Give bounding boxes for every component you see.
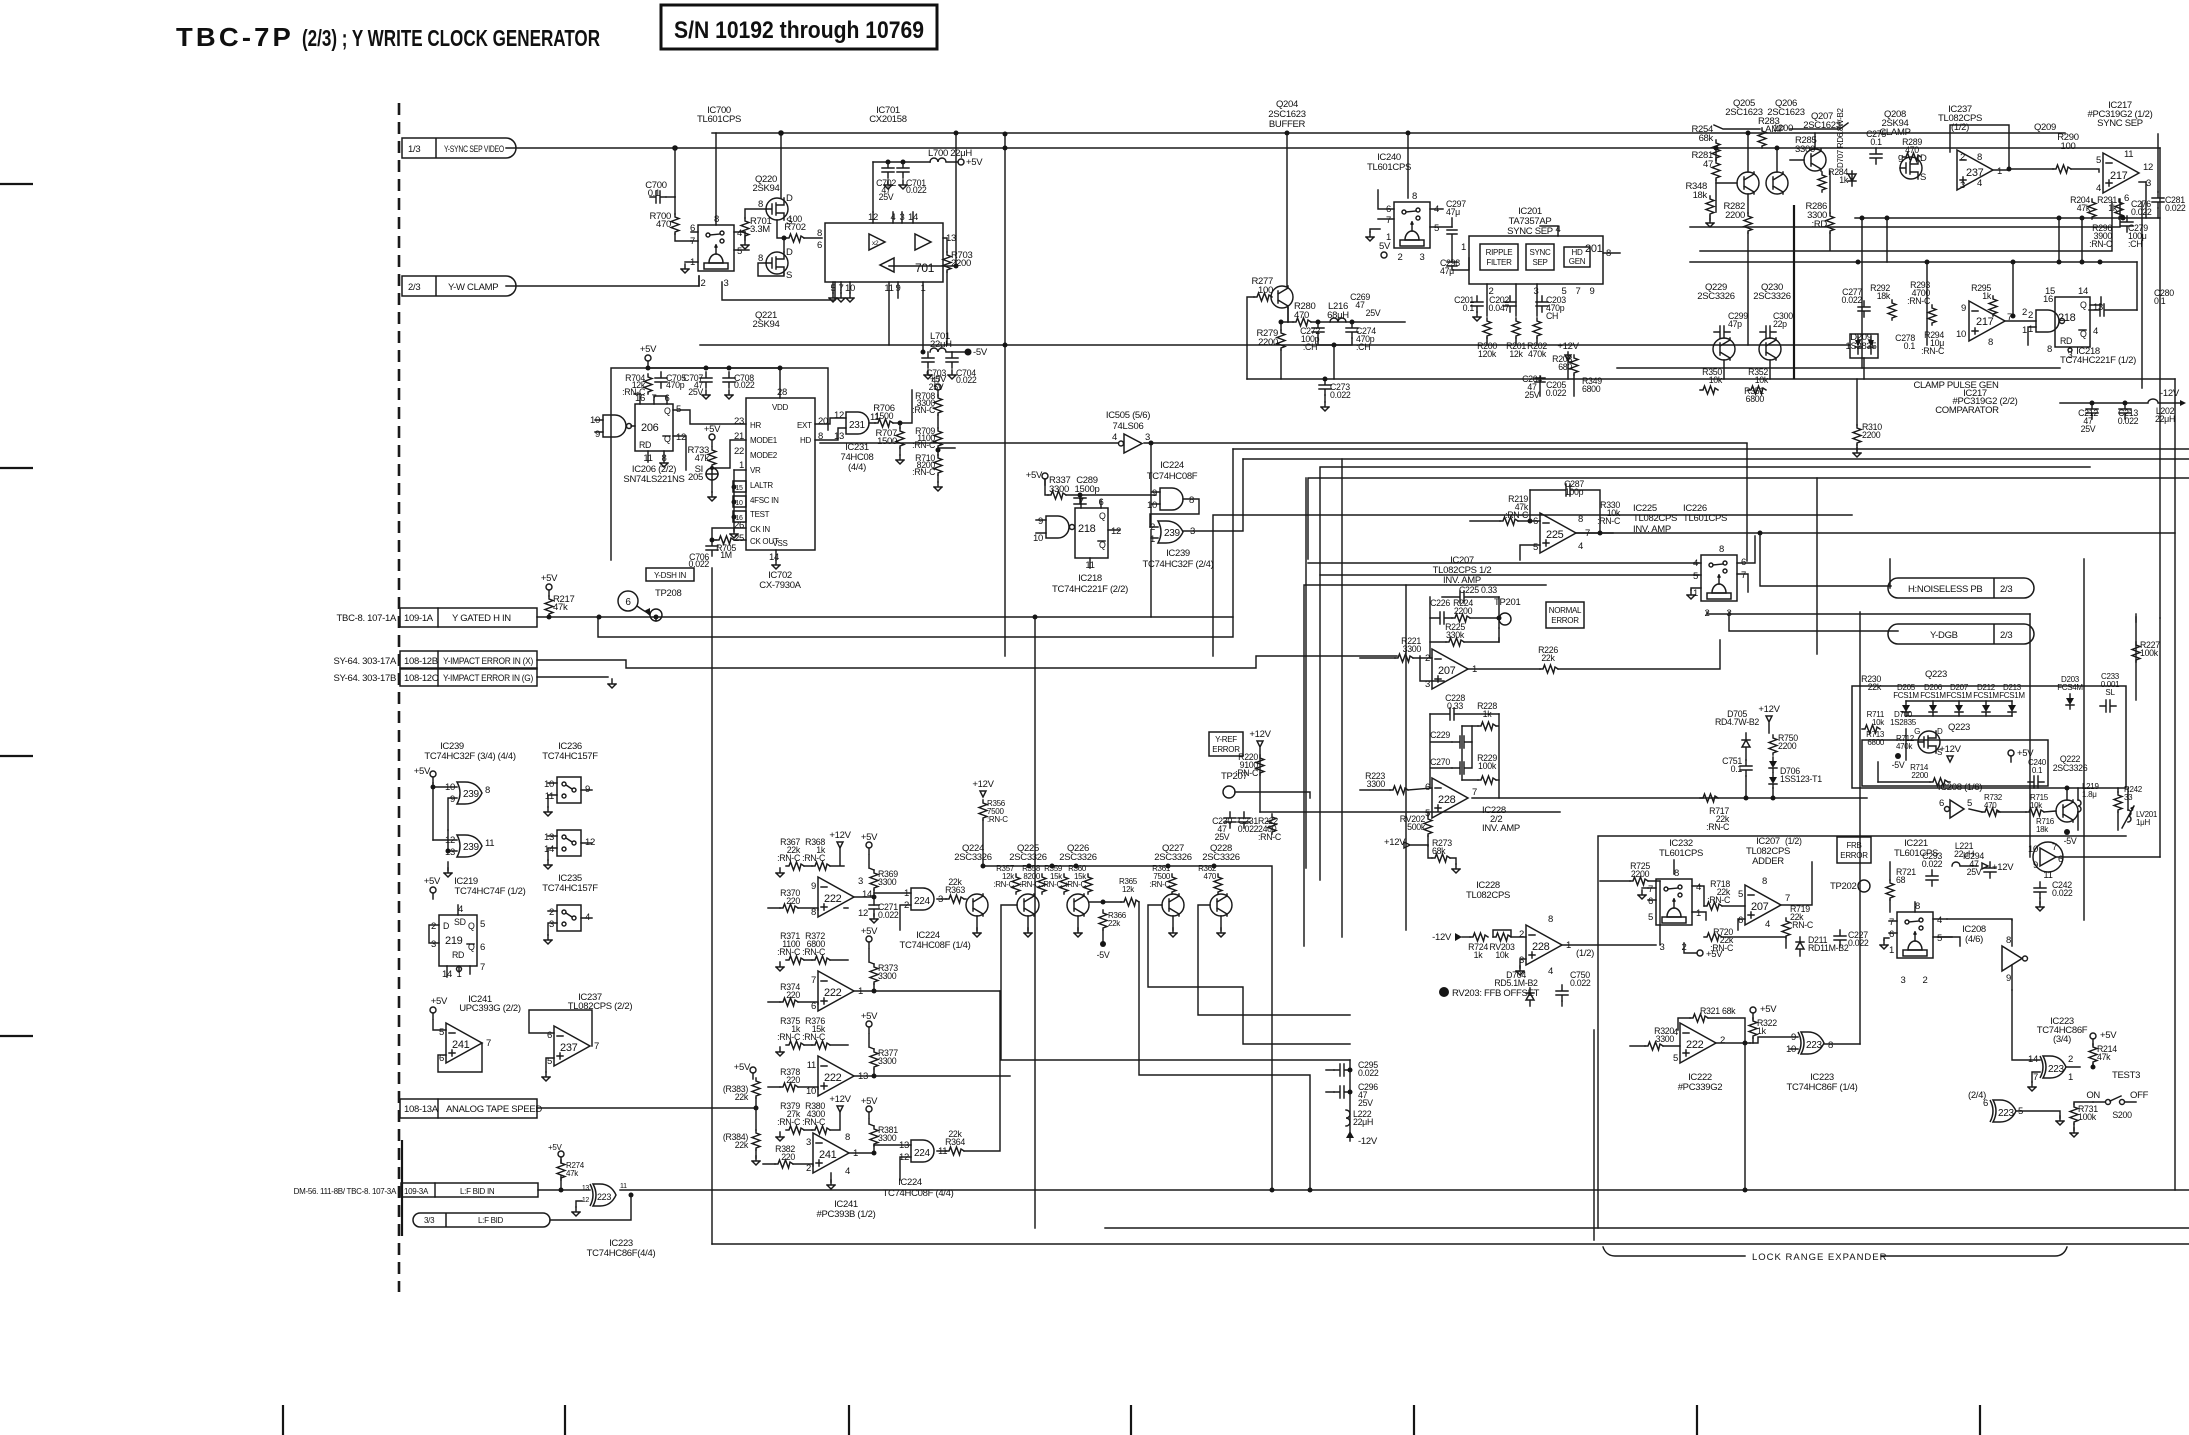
svg-text:7: 7 bbox=[1741, 570, 1746, 581]
svg-text:BUFFER: BUFFER bbox=[1269, 119, 1306, 130]
svg-text:25V: 25V bbox=[1358, 1098, 1373, 1108]
resistor R702 bbox=[786, 234, 804, 242]
svg-text:22μH: 22μH bbox=[2155, 414, 2175, 424]
svg-text:Q223: Q223 bbox=[1948, 722, 1970, 733]
svg-text:7: 7 bbox=[480, 962, 485, 973]
svg-text::RN-C: :RN-C bbox=[1790, 920, 1814, 930]
svg-text:4: 4 bbox=[458, 904, 463, 915]
svg-text:1: 1 bbox=[1150, 534, 1155, 545]
capacitor C703 / capacitor C704 bbox=[922, 352, 934, 368]
svg-text:224: 224 bbox=[914, 896, 931, 907]
svg-text:-5V: -5V bbox=[2064, 836, 2077, 846]
svg-text:241: 241 bbox=[452, 1039, 470, 1051]
svg-text:ERROR: ERROR bbox=[1551, 616, 1579, 625]
svg-text:228: 228 bbox=[1532, 941, 1550, 953]
svg-text:8: 8 bbox=[817, 228, 822, 239]
box 108-13A ANALOG TAPE SPEED bbox=[400, 1099, 542, 1118]
svg-text:TC74HC221F (2/2): TC74HC221F (2/2) bbox=[1052, 584, 1128, 595]
svg-text:2: 2 bbox=[1720, 1035, 1725, 1046]
capacitor C203 bbox=[1536, 296, 1548, 312]
svg-text:1k: 1k bbox=[1982, 291, 1992, 301]
FRB ERROR box bbox=[1837, 837, 1871, 863]
svg-text:109-3A: 109-3A bbox=[404, 1187, 429, 1196]
svg-text:5: 5 bbox=[1967, 798, 1972, 809]
box 109-3A L:F BID IN bbox=[294, 1183, 538, 1197]
svg-text:3: 3 bbox=[2146, 178, 2151, 189]
right edge verticals bbox=[1890, 379, 2175, 1190]
svg-text:0.1: 0.1 bbox=[648, 188, 660, 199]
svg-text:2SC3326: 2SC3326 bbox=[1202, 852, 1240, 863]
svg-text:206: 206 bbox=[641, 422, 659, 434]
svg-text:11: 11 bbox=[2124, 149, 2133, 160]
svg-text:8: 8 bbox=[485, 785, 490, 796]
svg-text:219: 219 bbox=[445, 935, 463, 947]
svg-text:3: 3 bbox=[1534, 286, 1539, 297]
AND 231 bbox=[846, 412, 869, 434]
NAND into 218 bbox=[1046, 516, 1069, 538]
svg-text:CX-7930A: CX-7930A bbox=[759, 580, 801, 591]
svg-text:HD: HD bbox=[800, 436, 811, 445]
wire staircase buses bbox=[1233, 448, 2189, 450]
svg-text:0.022: 0.022 bbox=[2118, 416, 2139, 426]
svg-text::RN-C: :RN-C bbox=[1921, 346, 1945, 356]
svg-text:Y-REF: Y-REF bbox=[1215, 735, 1237, 744]
svg-text:224: 224 bbox=[914, 1148, 931, 1159]
svg-text:1/3: 1/3 bbox=[408, 144, 420, 155]
wire nested corners bbox=[1320, 467, 2090, 880]
svg-text:TBC-7P: TBC-7P bbox=[176, 22, 294, 52]
R282 2200 bbox=[1744, 213, 1752, 233]
resistor R200 bbox=[1483, 318, 1491, 338]
svg-text:222: 222 bbox=[824, 893, 842, 905]
svg-text:OFF: OFF bbox=[2130, 1090, 2149, 1101]
wire pill links bbox=[1707, 612, 2030, 631]
svg-text:+5V: +5V bbox=[861, 926, 878, 937]
svg-text:7: 7 bbox=[1889, 917, 1894, 928]
svg-text:IC224: IC224 bbox=[898, 1177, 922, 1188]
svg-text:2SC3326: 2SC3326 bbox=[1009, 852, 1047, 863]
svg-text:25V: 25V bbox=[1215, 832, 1230, 842]
svg-text:1500: 1500 bbox=[877, 436, 897, 447]
svg-text:FCS1M: FCS1M bbox=[1893, 691, 1919, 700]
svg-text:2SK94: 2SK94 bbox=[752, 319, 779, 330]
svg-text:0.1: 0.1 bbox=[2154, 296, 2166, 306]
svg-text:470p: 470p bbox=[666, 380, 685, 390]
svg-text:(4/6): (4/6) bbox=[1965, 934, 1983, 945]
svg-text:0.022: 0.022 bbox=[1238, 824, 1259, 834]
svg-text:22k: 22k bbox=[948, 1129, 962, 1139]
svg-text:8: 8 bbox=[845, 1132, 850, 1143]
svg-text:+5V: +5V bbox=[2100, 1030, 2117, 1041]
218 block right bbox=[2055, 297, 2090, 347]
svg-text:2: 2 bbox=[1960, 152, 1965, 163]
svg-text:68: 68 bbox=[1896, 875, 1906, 885]
svg-text:47k: 47k bbox=[553, 602, 568, 613]
pill 2/3 Y-W CLAMP bbox=[402, 276, 516, 296]
wire y-sync sep video bus bbox=[506, 147, 2160, 149]
svg-text:+5V: +5V bbox=[734, 1062, 751, 1073]
svg-text:3300: 3300 bbox=[1656, 1034, 1675, 1044]
svg-text:4: 4 bbox=[2093, 326, 2098, 337]
svg-text:4: 4 bbox=[2096, 183, 2101, 194]
svg-text:Q: Q bbox=[468, 921, 475, 931]
svg-text:H:NOISELESS PB: H:NOISELESS PB bbox=[1908, 584, 1982, 595]
svg-text:4: 4 bbox=[1977, 178, 1982, 189]
R705 C706 bbox=[712, 528, 746, 540]
svg-text:0.022: 0.022 bbox=[1570, 978, 1591, 988]
svg-text:3: 3 bbox=[806, 1137, 811, 1148]
connector wires right bbox=[1878, 782, 2128, 1060]
wire midfield verticals bbox=[1034, 617, 1036, 1228]
svg-text:3: 3 bbox=[1660, 942, 1665, 953]
svg-text:+5V: +5V bbox=[861, 1096, 878, 1107]
svg-text:6: 6 bbox=[817, 240, 822, 251]
R283 1200 bbox=[1758, 128, 1766, 148]
svg-text:0.022: 0.022 bbox=[1848, 938, 1869, 948]
svg-text:ERROR: ERROR bbox=[1840, 851, 1868, 860]
svg-text:8: 8 bbox=[1548, 914, 1553, 925]
svg-text:0.1: 0.1 bbox=[1870, 137, 1882, 147]
svg-text:SYNC SEP: SYNC SEP bbox=[2097, 118, 2143, 129]
svg-text:ON: ON bbox=[2086, 1090, 2100, 1101]
svg-text:9: 9 bbox=[1038, 516, 1043, 527]
svg-text:+5V: +5V bbox=[704, 424, 721, 435]
IC218 block (2/2) bbox=[1075, 508, 1108, 558]
svg-text:10: 10 bbox=[1147, 500, 1157, 511]
svg-text:330k: 330k bbox=[1446, 630, 1465, 640]
svg-text:-5V: -5V bbox=[973, 347, 988, 358]
switch IC700 bbox=[698, 225, 734, 271]
wire top bus bbox=[712, 132, 2065, 134]
svg-text:MODE2: MODE2 bbox=[750, 451, 778, 460]
svg-text:12: 12 bbox=[834, 410, 844, 421]
svg-text::RN-C: :RN-C bbox=[987, 815, 1008, 824]
svg-text:0.022: 0.022 bbox=[1330, 390, 1351, 400]
svg-text:12: 12 bbox=[1111, 526, 1121, 537]
svg-text:220: 220 bbox=[781, 1152, 795, 1162]
D211 C227 bbox=[1796, 937, 1804, 956]
svg-text:220: 220 bbox=[786, 990, 800, 1000]
svg-text:11: 11 bbox=[485, 838, 494, 849]
svg-text:1500: 1500 bbox=[875, 411, 894, 421]
svg-text:217: 217 bbox=[2110, 170, 2128, 182]
svg-text:FCS1M: FCS1M bbox=[1920, 691, 1946, 700]
svg-text:207: 207 bbox=[1751, 901, 1769, 913]
svg-text:5V: 5V bbox=[1379, 241, 1391, 252]
svg-text:1: 1 bbox=[1696, 908, 1701, 919]
IC702 big box bbox=[746, 398, 815, 550]
svg-text:3: 3 bbox=[858, 876, 863, 887]
svg-text:IC224: IC224 bbox=[1160, 460, 1184, 471]
pin boxes 15 10 16 bbox=[733, 481, 746, 492]
svg-text:4: 4 bbox=[1112, 432, 1117, 443]
svg-text:TC74HC32F (2/4): TC74HC32F (2/4) bbox=[1143, 559, 1214, 570]
svg-text:100p: 100p bbox=[1565, 487, 1584, 497]
svg-text:SEP: SEP bbox=[1532, 258, 1547, 267]
svg-text:6: 6 bbox=[480, 942, 485, 953]
svg-text:22k: 22k bbox=[1541, 653, 1555, 663]
svg-text:-5V: -5V bbox=[1097, 950, 1110, 960]
svg-text:Q209: Q209 bbox=[2034, 122, 2056, 133]
svg-text:13: 13 bbox=[544, 832, 554, 843]
svg-text:HD: HD bbox=[1572, 248, 1583, 257]
svg-text:241: 241 bbox=[819, 1149, 837, 1161]
svg-text:+5V: +5V bbox=[640, 344, 657, 355]
svg-text:3300: 3300 bbox=[878, 877, 897, 887]
svg-text:Y GATED H IN: Y GATED H IN bbox=[452, 613, 511, 624]
C295 C296 L222 bbox=[1349, 1060, 1351, 1141]
svg-text:223: 223 bbox=[2048, 1064, 2065, 1075]
svg-text:(1/2): (1/2) bbox=[1951, 122, 1969, 133]
+5V R337 C289 bbox=[1042, 473, 1048, 485]
svg-text:22: 22 bbox=[734, 446, 744, 457]
svg-text:S: S bbox=[786, 270, 792, 281]
svg-text:G: G bbox=[1914, 727, 1920, 736]
shield box bbox=[611, 368, 828, 560]
svg-text:NORMAL: NORMAL bbox=[1549, 606, 1582, 615]
XOR 223 mid bbox=[1798, 1032, 1824, 1054]
svg-text:3300: 3300 bbox=[878, 1133, 897, 1143]
wire enclosure left edge bbox=[711, 568, 713, 1244]
svg-text:0.1: 0.1 bbox=[2032, 766, 2043, 775]
svg-text:5: 5 bbox=[1434, 223, 1439, 234]
svg-text:6800: 6800 bbox=[1582, 384, 1601, 394]
svg-text:7: 7 bbox=[1576, 286, 1581, 297]
svg-text:+12V: +12V bbox=[1939, 744, 1961, 755]
svg-text::CH: :CH bbox=[1303, 342, 1317, 352]
svg-text:4FSC IN: 4FSC IN bbox=[750, 496, 779, 505]
switch IC232 bbox=[1656, 879, 1692, 925]
svg-text:12: 12 bbox=[2143, 162, 2153, 173]
svg-text:FCS4M: FCS4M bbox=[2057, 683, 2083, 692]
svg-text:9: 9 bbox=[2006, 973, 2011, 984]
svg-text:68k: 68k bbox=[1432, 846, 1446, 856]
svg-text:TL601CPS: TL601CPS bbox=[697, 114, 741, 125]
svg-text:0.022: 0.022 bbox=[1922, 859, 1943, 869]
OR 239 b bbox=[457, 835, 482, 857]
svg-text:4: 4 bbox=[1673, 1027, 1678, 1038]
svg-text:218: 218 bbox=[1078, 523, 1096, 535]
R286 3300 RD bbox=[1826, 213, 1834, 233]
svg-text:10: 10 bbox=[1956, 329, 1966, 340]
svg-text:10: 10 bbox=[1033, 533, 1043, 544]
svg-text:15: 15 bbox=[735, 485, 743, 492]
FET Q208 bbox=[1900, 157, 1922, 179]
svg-text:-5V: -5V bbox=[1892, 760, 1905, 770]
svg-text:0.022: 0.022 bbox=[1546, 388, 1567, 398]
svg-text:RIPPLE: RIPPLE bbox=[1486, 248, 1513, 257]
svg-text:7: 7 bbox=[1472, 787, 1477, 798]
svg-text:100k: 100k bbox=[2078, 1112, 2097, 1122]
svg-text:4: 4 bbox=[1765, 919, 1770, 930]
svg-text:LOCK RANGE EXPANDER: LOCK RANGE EXPANDER bbox=[1752, 1252, 1888, 1263]
svg-text:+12V: +12V bbox=[972, 779, 994, 790]
svg-text:100: 100 bbox=[788, 214, 802, 224]
svg-text:2SC3326: 2SC3326 bbox=[1697, 291, 1735, 302]
svg-text:22k: 22k bbox=[1108, 919, 1121, 928]
svg-text:7: 7 bbox=[811, 975, 816, 986]
svg-text:12k: 12k bbox=[1122, 885, 1135, 894]
svg-text:100k: 100k bbox=[2140, 648, 2159, 658]
svg-text:223: 223 bbox=[597, 1192, 611, 1202]
resistor R704 / capacitor C705 bbox=[644, 374, 652, 394]
svg-text:8: 8 bbox=[1578, 514, 1583, 525]
svg-text:3300: 3300 bbox=[1795, 144, 1815, 155]
box 108-12B bbox=[333, 651, 537, 669]
svg-text:0.1: 0.1 bbox=[1463, 303, 1475, 313]
svg-text:TC74HC86F(4/4): TC74HC86F(4/4) bbox=[587, 1248, 656, 1259]
svg-text:Y-IMPACT ERROR IN (G): Y-IMPACT ERROR IN (G) bbox=[443, 673, 533, 684]
svg-text:8: 8 bbox=[1719, 544, 1724, 555]
IC223 label bbox=[587, 1238, 656, 1259]
resistor R708 / resistor R709 / resistor R710 bbox=[935, 384, 941, 396]
R383 R384 bbox=[750, 1067, 756, 1079]
svg-text:0.022: 0.022 bbox=[1358, 1068, 1379, 1078]
svg-text:18k: 18k bbox=[1693, 190, 1708, 201]
svg-text:-12V: -12V bbox=[1358, 1136, 1378, 1147]
svg-text:100k: 100k bbox=[1478, 761, 1497, 771]
svg-text:3300: 3300 bbox=[1367, 779, 1386, 789]
svg-text:47p: 47p bbox=[1728, 319, 1742, 329]
svg-text:18k: 18k bbox=[1877, 291, 1891, 301]
svg-text:IC239: IC239 bbox=[1166, 548, 1190, 559]
svg-text:25V: 25V bbox=[879, 192, 894, 202]
svg-text:5: 5 bbox=[1738, 889, 1743, 900]
svg-text:TC74HC86F (1/4): TC74HC86F (1/4) bbox=[1787, 1082, 1858, 1093]
capacitor C202 bbox=[1504, 296, 1516, 312]
svg-text::RN-C: :RN-C bbox=[912, 440, 936, 450]
opamp 207 adder bbox=[1745, 885, 1781, 925]
wire y-impact wires bbox=[537, 656, 1397, 677]
svg-text:10k: 10k bbox=[1755, 375, 1769, 385]
resistor R701 bbox=[741, 218, 749, 238]
NAND gate 206input bbox=[603, 415, 626, 437]
svg-text:6: 6 bbox=[547, 1030, 552, 1041]
svg-text:47: 47 bbox=[1355, 300, 1365, 310]
svg-text:+12V: +12V bbox=[829, 1094, 851, 1105]
svg-text:6: 6 bbox=[1648, 896, 1653, 907]
svg-text:Q: Q bbox=[2080, 300, 2087, 310]
svg-text:4: 4 bbox=[1696, 882, 1701, 893]
svg-text:0.022: 0.022 bbox=[956, 375, 977, 385]
svg-text:3: 3 bbox=[1727, 608, 1732, 619]
svg-text:TP202: TP202 bbox=[1830, 881, 1857, 892]
box 109-1A Y GATED H IN bbox=[337, 608, 537, 627]
svg-text:2SC3326: 2SC3326 bbox=[1059, 852, 1097, 863]
svg-text:5: 5 bbox=[1648, 912, 1653, 923]
svg-text:8: 8 bbox=[1977, 152, 1982, 163]
svg-text:TEST3: TEST3 bbox=[2112, 1070, 2140, 1081]
svg-text:TC74HC157F: TC74HC157F bbox=[542, 883, 598, 894]
svg-text:5: 5 bbox=[1673, 1053, 1678, 1064]
svg-text:9: 9 bbox=[1961, 303, 1966, 314]
svg-text:+5V: +5V bbox=[414, 766, 431, 777]
svg-text::RD: :RD bbox=[1812, 219, 1828, 230]
svg-text:23: 23 bbox=[734, 416, 744, 427]
svg-text:+5V: +5V bbox=[861, 832, 878, 843]
svg-text:2/3: 2/3 bbox=[2000, 584, 2012, 595]
svg-text:201: 201 bbox=[1585, 243, 1603, 255]
resistor R706 / resistor R707 bbox=[875, 419, 893, 427]
svg-text:+5V: +5V bbox=[861, 1011, 878, 1022]
svg-text:1μH: 1μH bbox=[2136, 818, 2150, 827]
svg-text:10k: 10k bbox=[1709, 375, 1723, 385]
svg-text:Q: Q bbox=[664, 406, 671, 416]
R217 +5V bbox=[546, 584, 552, 596]
svg-text::RN-C: :RN-C bbox=[777, 1117, 801, 1127]
svg-text:TL601CPS: TL601CPS bbox=[1659, 848, 1703, 859]
svg-text:470k: 470k bbox=[1528, 349, 1547, 359]
svg-text:3: 3 bbox=[724, 278, 729, 289]
svg-text:3300: 3300 bbox=[878, 1056, 897, 1066]
svg-text:TL082CPS: TL082CPS bbox=[1466, 890, 1510, 901]
svg-text:22μH: 22μH bbox=[1353, 1117, 1373, 1127]
svg-text:IC505 (5/6): IC505 (5/6) bbox=[1106, 410, 1150, 421]
svg-text:+5V: +5V bbox=[1026, 470, 1043, 481]
svg-text:22k: 22k bbox=[735, 1140, 749, 1150]
svg-text:ERROR: ERROR bbox=[1212, 745, 1240, 754]
svg-text:2: 2 bbox=[2022, 307, 2027, 318]
svg-text:L:F BID: L:F BID bbox=[478, 1216, 504, 1225]
svg-text:TP201: TP201 bbox=[1494, 597, 1521, 608]
svg-text:1: 1 bbox=[2068, 1072, 2073, 1083]
svg-text:5: 5 bbox=[480, 919, 485, 930]
svg-text:RD: RD bbox=[452, 950, 464, 960]
svg-text:GEN: GEN bbox=[1569, 257, 1586, 266]
svg-text:108-12C: 108-12C bbox=[404, 673, 439, 684]
svg-text:10k: 10k bbox=[1495, 950, 1509, 960]
svg-text:5: 5 bbox=[1693, 571, 1698, 582]
svg-text:4: 4 bbox=[737, 228, 742, 239]
svg-text:5: 5 bbox=[439, 1027, 444, 1038]
svg-text:18k: 18k bbox=[2036, 825, 2049, 834]
svg-text:207: 207 bbox=[1438, 665, 1456, 677]
svg-text:0.022: 0.022 bbox=[2165, 203, 2186, 213]
wire 207 plus input bbox=[1420, 656, 1444, 681]
wire from Y-W clamp to switch bbox=[699, 276, 835, 300]
svg-text::RN-C: :RN-C bbox=[1597, 516, 1621, 526]
svg-text:+5V: +5V bbox=[548, 1143, 563, 1152]
svg-text:3: 3 bbox=[1901, 975, 1906, 986]
opamp 225 bbox=[1540, 513, 1576, 553]
svg-text:2/3: 2/3 bbox=[2000, 630, 2012, 641]
svg-text:12k: 12k bbox=[1509, 349, 1523, 359]
svg-text:12: 12 bbox=[676, 432, 686, 443]
C272 C274 bbox=[1312, 322, 1324, 338]
svg-text:MODE1: MODE1 bbox=[750, 436, 778, 445]
svg-text:2: 2 bbox=[549, 907, 554, 918]
svg-text:7: 7 bbox=[594, 1041, 599, 1052]
svg-text:x2: x2 bbox=[872, 240, 879, 247]
svg-text:1: 1 bbox=[1693, 588, 1698, 599]
svg-text:2: 2 bbox=[1923, 975, 1928, 986]
svg-text:LALTR: LALTR bbox=[750, 481, 773, 490]
svg-text:220: 220 bbox=[786, 1075, 800, 1085]
svg-text:3: 3 bbox=[549, 919, 554, 930]
svg-text:47μ: 47μ bbox=[1446, 207, 1460, 217]
pill 3/3 L:F BID bbox=[413, 1213, 550, 1227]
svg-text:RD11M-B2: RD11M-B2 bbox=[1808, 943, 1849, 953]
diode matrix box bbox=[1852, 686, 2126, 788]
svg-text:FILTER: FILTER bbox=[1486, 258, 1512, 267]
wire y-w clamp bbox=[506, 276, 699, 286]
box 108-12C bbox=[333, 668, 537, 686]
svg-text:1k: 1k bbox=[1757, 1026, 1767, 1036]
svg-text:6: 6 bbox=[1425, 782, 1430, 793]
svg-text:INV. AMP: INV. AMP bbox=[1482, 823, 1520, 834]
svg-text:12: 12 bbox=[858, 908, 868, 919]
svg-text:8: 8 bbox=[2047, 344, 2052, 355]
